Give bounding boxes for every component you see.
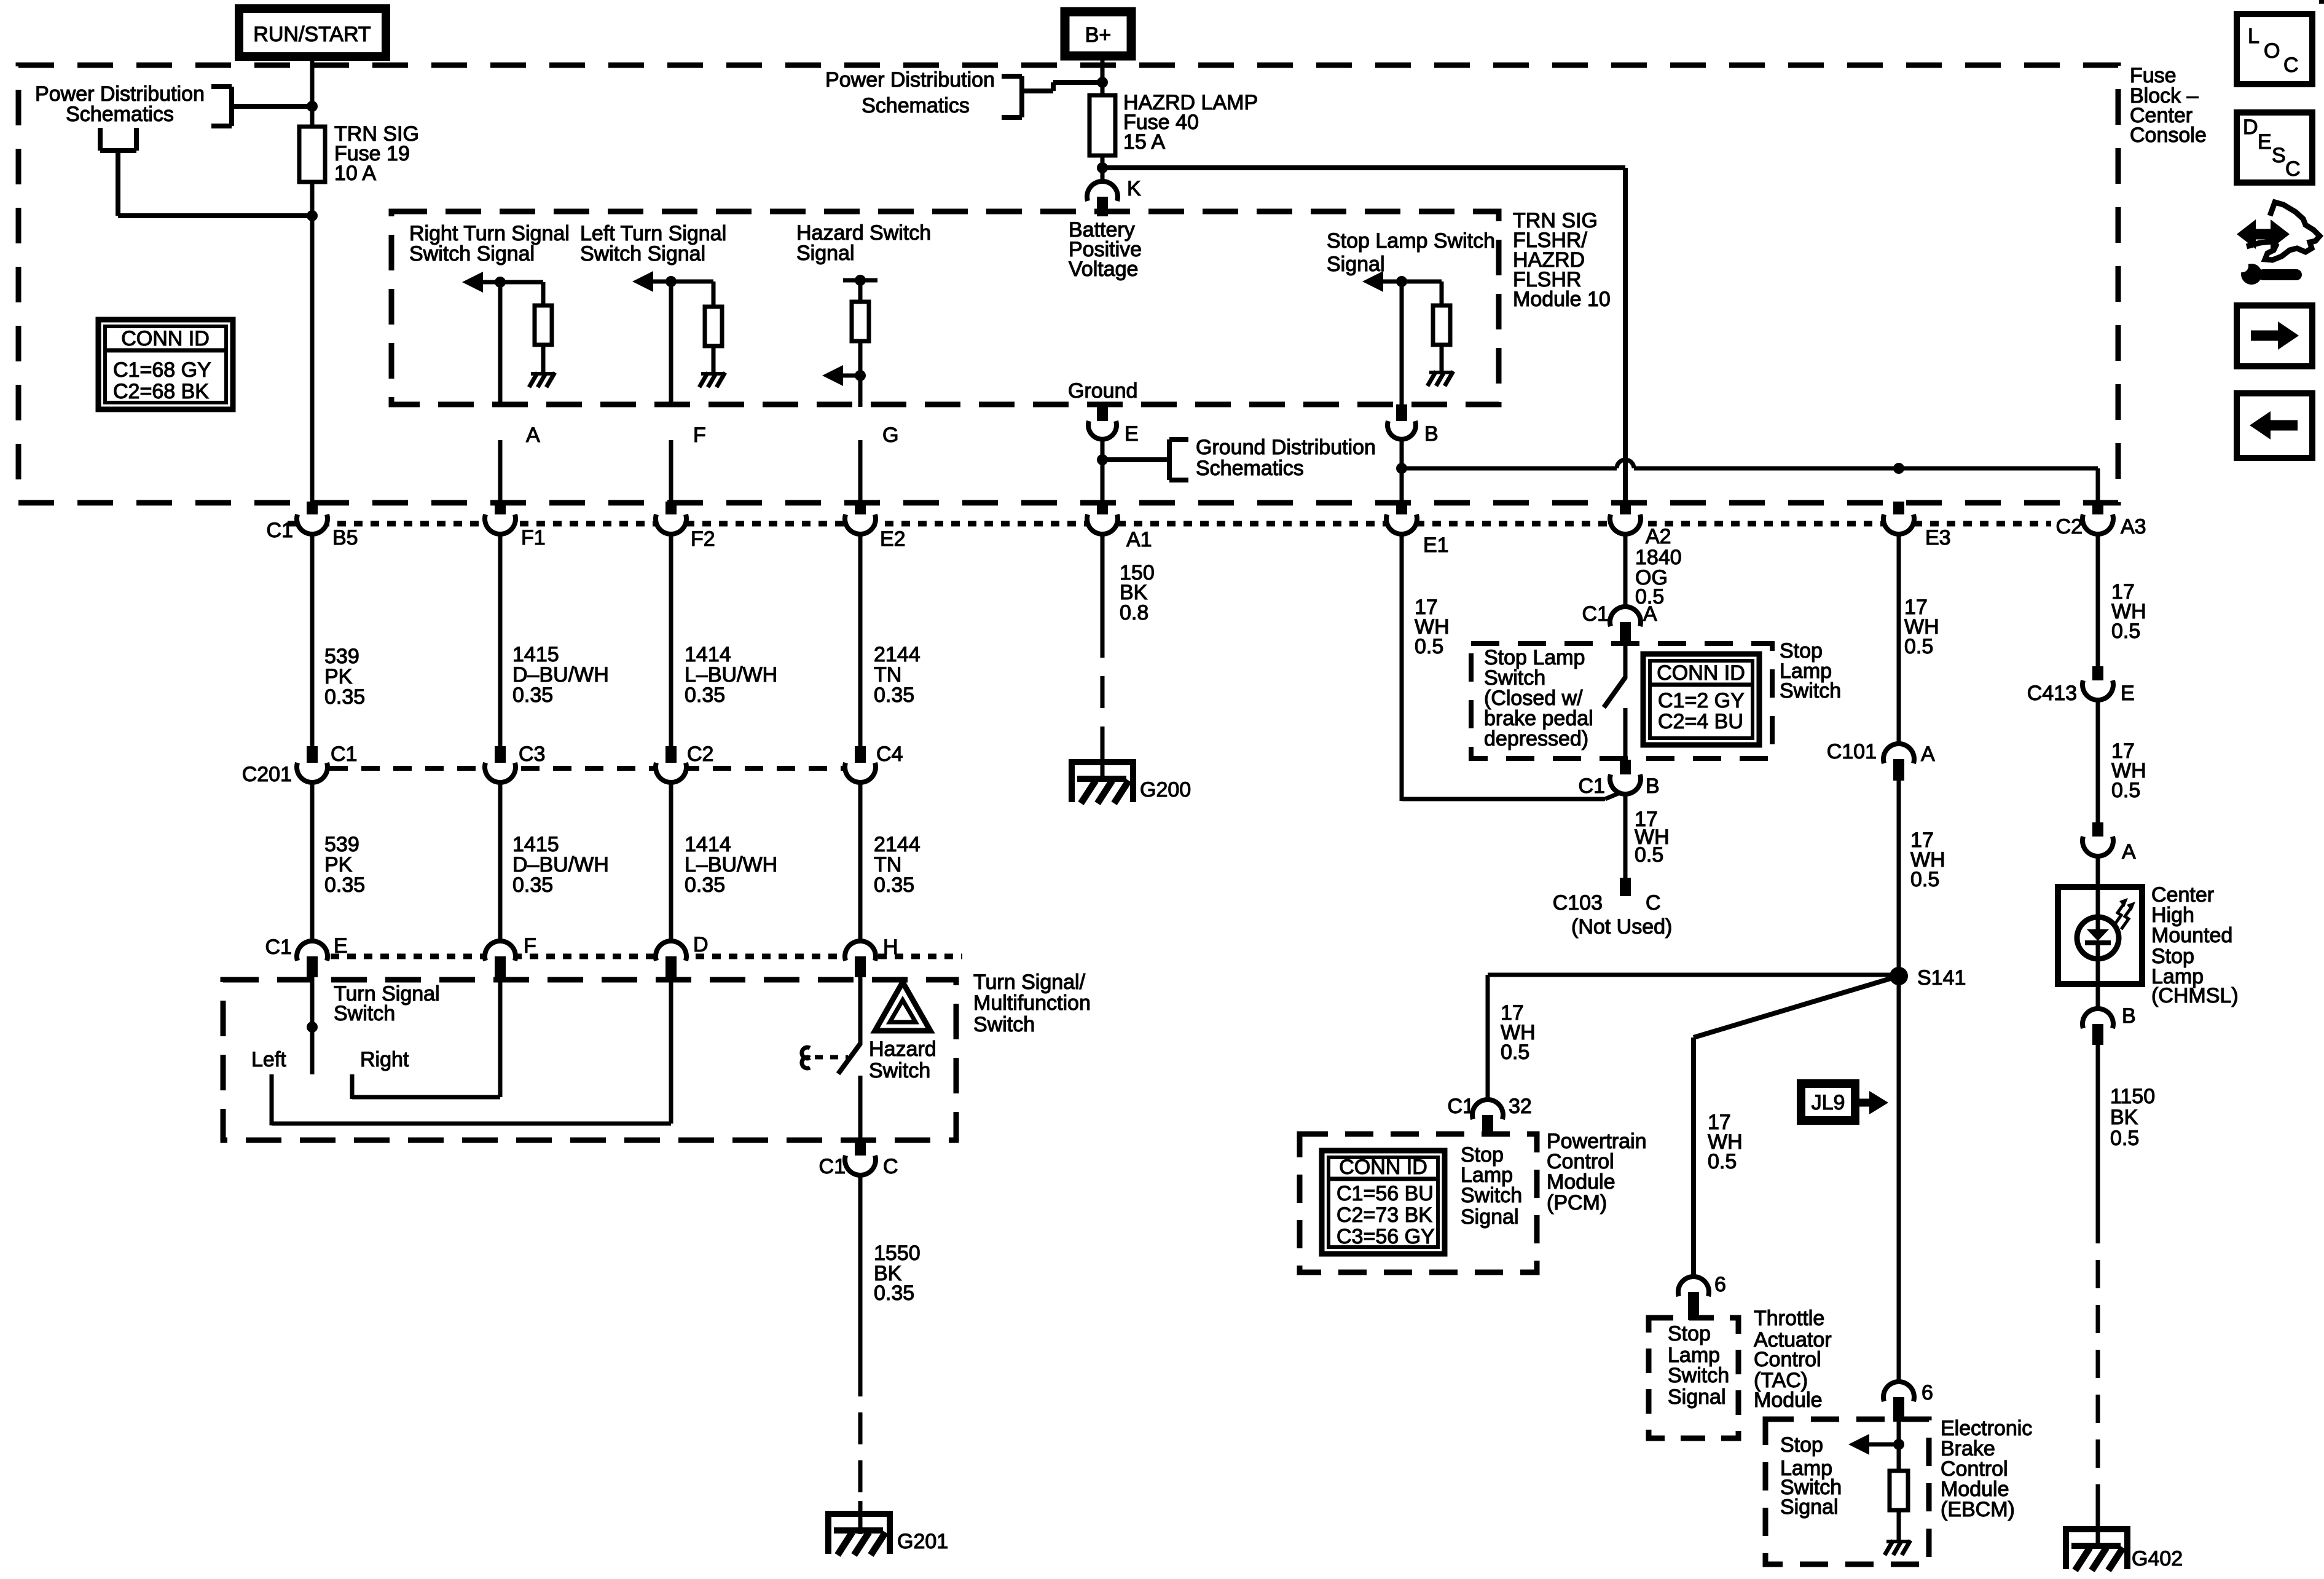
svg-text:0.5: 0.5 bbox=[2111, 620, 2140, 643]
label Turn Signal Switch (box) bbox=[334, 982, 440, 1025]
label Power Distribution Schematics (left) bbox=[35, 82, 205, 126]
svg-text:C: C bbox=[2285, 157, 2301, 181]
wire CHMSL to connector B bbox=[2096, 984, 2100, 1010]
TRN SIG FLSHR/HAZRD FLSHR Module 10 dashed box bbox=[391, 211, 1499, 404]
ground G200 bbox=[1069, 759, 1136, 765]
connector C1/C2 pin A1 arc bbox=[1087, 514, 1118, 534]
connector C1/C2 pin A2 stub bbox=[1620, 502, 1631, 520]
svg-text:0.5: 0.5 bbox=[1910, 868, 1939, 891]
svg-text:C2: C2 bbox=[687, 742, 713, 766]
svg-text:A: A bbox=[1643, 602, 1657, 626]
hazard switch signal T-bar bbox=[843, 278, 877, 283]
wire F1 to C201-C3 bbox=[498, 535, 503, 747]
page corner tick bbox=[2319, 0, 2324, 4]
svg-text:15 A: 15 A bbox=[1123, 130, 1165, 154]
svg-text:Multifunction: Multifunction bbox=[973, 991, 1091, 1015]
forward arrow icon box bbox=[2237, 305, 2312, 366]
LED cathode bar bbox=[2085, 940, 2111, 945]
svg-text:F: F bbox=[524, 934, 536, 958]
wire E2 to C201-C4 bbox=[858, 535, 863, 747]
fuse F40 HAZRD LAMP Fuse 40 15A bbox=[1089, 95, 1115, 156]
connector C1-A stub bbox=[1620, 622, 1631, 645]
svg-text:0.5: 0.5 bbox=[2111, 779, 2140, 802]
turn signal switch pole wire from pin E bbox=[310, 975, 315, 1074]
svg-text:Module: Module bbox=[1547, 1170, 1615, 1194]
connector C1/C2 pin F2 arc bbox=[656, 514, 686, 534]
wire labels 17 WH 0.5 (PCM branch) bbox=[1501, 1001, 1536, 1064]
wire diagonal branch S141 to TAC module bbox=[1694, 976, 1899, 1038]
stop lamp switch signal arrow (module) bbox=[1377, 280, 1402, 284]
label Power Distribution Schematics (B+) bbox=[825, 68, 995, 117]
wire A3 down (17 WH) bbox=[2096, 535, 2100, 666]
connector A stub (CHMSL) bbox=[2092, 822, 2103, 842]
svg-text:C3: C3 bbox=[519, 742, 545, 766]
label connector C1-C (hazard) bbox=[819, 1155, 898, 1178]
svg-text:0.35: 0.35 bbox=[324, 873, 365, 897]
svg-text:Switch: Switch bbox=[869, 1059, 930, 1082]
wire A2 down (1840 OG) bbox=[1623, 535, 1628, 608]
wire labels 1414 L-BU/WH 0.35 (lower) bbox=[685, 833, 777, 897]
svg-text:0.35: 0.35 bbox=[685, 873, 725, 897]
LOC icon box bbox=[2237, 14, 2312, 84]
svg-text:Stop: Stop bbox=[1668, 1322, 1711, 1345]
svg-text:E3: E3 bbox=[1925, 526, 1951, 549]
wire jog from E1 run to stop lamp switch pin B bbox=[1402, 791, 1624, 799]
wire EBCM pin 6 into module bbox=[1897, 1420, 1901, 1472]
connector A arc (CHMSL) bbox=[2083, 837, 2113, 856]
connector C201 pin C3 arc bbox=[485, 763, 516, 782]
wire E1 down (17 WH) bbox=[1400, 535, 1404, 801]
power distribution schematics bracket (B+) bbox=[1002, 76, 1102, 117]
label Stop Lamp Switch Signal (EBCM) bbox=[1780, 1433, 1842, 1519]
connector C1/C2 pin B5 arc bbox=[297, 514, 328, 534]
LED lamp circle bbox=[2077, 917, 2119, 959]
ground (module internal, stop lamp) bbox=[1429, 371, 1453, 374]
connector K arc bbox=[1087, 181, 1118, 201]
node fuse 40 output bbox=[1097, 162, 1108, 173]
wire C201-C3 to switch pin F bbox=[498, 779, 503, 943]
wire labels 17 WH 0.5 (switch B to C103) bbox=[1635, 808, 1670, 867]
wire switch pin D down to Left contact run bbox=[669, 975, 673, 1124]
wire labels 2144 TN 0.35 (upper) bbox=[874, 643, 921, 707]
connector C1-32 arc (PCM) bbox=[1472, 1100, 1503, 1119]
connector C1/C2 pin A2 arc bbox=[1610, 514, 1641, 534]
connector C1-A arc (stop lamp switch) bbox=[1610, 607, 1641, 626]
left turn signal switch signal arrow bbox=[647, 280, 671, 284]
label Powertrain Control Module (PCM) bbox=[1547, 1130, 1647, 1215]
label C413 E bbox=[2027, 682, 2135, 705]
wire B down (1150 BK) bbox=[2096, 1044, 2100, 1215]
svg-text:L: L bbox=[2248, 25, 2259, 48]
label Throttle Actuator Control (TAC) Module bbox=[1754, 1307, 1832, 1412]
label HAZRD LAMP Fuse 40 15 A bbox=[1123, 91, 1258, 154]
svg-text:G402: G402 bbox=[2132, 1547, 2183, 1570]
connector switch C1 pin D stub bbox=[665, 956, 677, 977]
connector C1/C2 pin A3 stub bbox=[2092, 502, 2103, 520]
wire branch S141 to PCM (horizontal) bbox=[1488, 973, 1899, 977]
svg-text:CONN ID: CONN ID bbox=[1657, 661, 1745, 685]
svg-text:0.35: 0.35 bbox=[874, 683, 914, 707]
svg-text:Signal: Signal bbox=[1327, 253, 1385, 276]
svg-text:Left: Left bbox=[251, 1048, 286, 1071]
svg-text:D: D bbox=[693, 933, 709, 956]
svg-text:Throttle: Throttle bbox=[1754, 1307, 1824, 1330]
stop lamp switch upper contact wire bbox=[1623, 644, 1628, 679]
hazard sense arrow bbox=[837, 374, 860, 378]
wire TAC branch vertical to pin 6 bbox=[1691, 1038, 1696, 1278]
wire B5 to C201-C1 bbox=[310, 535, 315, 747]
connector C1/C2 pin A1 stub bbox=[1097, 502, 1108, 520]
svg-text:K: K bbox=[1127, 177, 1141, 200]
label Hazard Switch Signal bbox=[796, 221, 931, 265]
wire stop lamp signal to module pin B bbox=[1400, 282, 1404, 407]
svg-text:E: E bbox=[2121, 682, 2135, 705]
wire hazard resistor to module pin G bbox=[858, 341, 863, 407]
wire module pin G to connector E2 bbox=[858, 440, 863, 504]
svg-text:G: G bbox=[882, 423, 898, 447]
wire rail corner down to A3 bbox=[2096, 468, 2100, 504]
svg-text:C1: C1 bbox=[819, 1155, 846, 1178]
connector C1-C arc (hazard) bbox=[845, 1156, 876, 1175]
node hazard sense bbox=[855, 370, 866, 381]
labels Left / Right contacts bbox=[251, 1048, 409, 1071]
resistor EBCM stop lamp input bbox=[1890, 1471, 1908, 1510]
connector C1-B arc bbox=[1610, 774, 1641, 794]
wire C101 down to splice S141 bbox=[1897, 779, 1901, 976]
turn signal / multifunction switch dashed box bbox=[223, 980, 956, 1140]
svg-text:0.35: 0.35 bbox=[512, 873, 553, 897]
svg-text:Turn Signal/: Turn Signal/ bbox=[973, 971, 1086, 994]
connector C201 pin C2 stub bbox=[665, 746, 677, 767]
connector B arc (CHMSL) bbox=[2083, 1009, 2113, 1028]
node below RUN/START bbox=[307, 101, 318, 112]
connector 6 stub (EBCM) bbox=[1893, 1397, 1904, 1422]
connector C1/C2 pin E3 arc bbox=[1883, 514, 1914, 534]
svg-text:A2: A2 bbox=[1646, 525, 1671, 548]
fuse block - center console dashed box bbox=[18, 65, 2118, 503]
wire labels 2144 TN 0.35 (lower) bbox=[874, 833, 921, 897]
wire E3 down (17 WH) bbox=[1897, 535, 1901, 746]
resistor stop lamp signal pull-up bbox=[1433, 305, 1450, 345]
connector switch C1 pin E stub bbox=[307, 956, 318, 977]
svg-text:C1=2 GY: C1=2 GY bbox=[1658, 689, 1745, 712]
connector switch C1 pin H stub bbox=[855, 956, 866, 977]
wire fuse 40 output to connector K bbox=[1101, 156, 1105, 183]
label Stop Lamp Switch (right of box) bbox=[1780, 639, 1841, 703]
label Stop Lamp Switch Signal (TAC) bbox=[1668, 1322, 1729, 1409]
svg-text:Power Distribution: Power Distribution bbox=[825, 68, 995, 92]
svg-text:Module: Module bbox=[1754, 1388, 1823, 1412]
node right turn signal bbox=[495, 277, 506, 288]
splice S141 bbox=[1890, 967, 1908, 985]
EBCM sense arrow bbox=[1863, 1443, 1899, 1447]
wire labels 539 PK 0.35 (lower) bbox=[324, 833, 365, 897]
svg-text:S: S bbox=[2272, 144, 2286, 167]
ground G201 bbox=[825, 1511, 893, 1517]
module pin B arc bbox=[1388, 421, 1416, 439]
wire labels 1840 OG 0.5 (A2) bbox=[1635, 546, 1682, 608]
svg-text:E2: E2 bbox=[880, 527, 906, 551]
stop lamp switch lower contact wire bbox=[1623, 708, 1628, 760]
connector C201 pin C3 stub bbox=[495, 746, 506, 767]
wire into CHMSL bbox=[2096, 856, 2100, 889]
wire dashed continuation to G201 bbox=[858, 1364, 863, 1501]
svg-text:Schematics: Schematics bbox=[1196, 457, 1304, 480]
LED wire inside bbox=[2096, 918, 2100, 931]
labels connector C201 row bbox=[242, 742, 903, 786]
label connector C1-B (stop lamp switch) bbox=[1579, 774, 1660, 798]
svg-text:Switch: Switch bbox=[1780, 679, 1841, 703]
connector 6 arc (EBCM) bbox=[1883, 1382, 1914, 1401]
connector C1/C2 pin E1 stub bbox=[1396, 502, 1407, 520]
svg-text:F1: F1 bbox=[521, 526, 546, 549]
svg-text:A3: A3 bbox=[2121, 515, 2146, 538]
wire RUN/START ignition feed down to Fuse 19 bbox=[310, 57, 315, 129]
connector C1-B stub bbox=[1620, 760, 1631, 780]
svg-text:Signal: Signal bbox=[1780, 1495, 1839, 1519]
wire labels 17 WH 0.5 (TAC branch) bbox=[1708, 1111, 1743, 1173]
wire labels 17 WH 0.5 (A3) bbox=[2111, 580, 2146, 643]
svg-text:E: E bbox=[1125, 422, 1139, 446]
svg-text:C1: C1 bbox=[1582, 602, 1609, 626]
hazard switch actuator symbol bbox=[802, 1047, 810, 1068]
svg-text:1150: 1150 bbox=[2110, 1085, 2155, 1108]
svg-text:0.5: 0.5 bbox=[1635, 843, 1663, 867]
svg-text:Mounted: Mounted bbox=[2151, 924, 2232, 947]
connector C1/C2 pin E1 arc bbox=[1386, 514, 1417, 534]
resistor left turn signal pull-up bbox=[705, 307, 722, 346]
svg-text:B+: B+ bbox=[1085, 23, 1112, 47]
svg-text:C1: C1 bbox=[1448, 1095, 1474, 1118]
connector C101-A stub bbox=[1893, 759, 1904, 781]
svg-text:Ground: Ground bbox=[1068, 379, 1137, 403]
svg-text:C413: C413 bbox=[2027, 682, 2077, 705]
label C101 bbox=[1827, 740, 1935, 766]
ground (module internal, right turn) bbox=[531, 372, 555, 376]
connector switch C1 pin F arc bbox=[485, 941, 516, 961]
wire pin B down through E1 bbox=[1400, 439, 1404, 504]
label Center High Mounted Stop Lamp (CHMSL) bbox=[2151, 883, 2239, 1007]
B+ power box bbox=[1065, 12, 1131, 56]
label C1 32 (PCM connector) bbox=[1448, 1095, 1532, 1118]
svg-text:(PCM): (PCM) bbox=[1547, 1191, 1607, 1215]
svg-text:0.35: 0.35 bbox=[324, 685, 365, 709]
svg-text:Switch: Switch bbox=[334, 1002, 395, 1025]
svg-text:(CHMSL): (CHMSL) bbox=[2151, 984, 2239, 1007]
svg-text:32: 32 bbox=[1509, 1095, 1532, 1118]
connector C1/C2 pin E3 stub bbox=[1893, 502, 1904, 520]
powertrain control module PCM dashed box bbox=[1300, 1134, 1537, 1272]
wire switch pin F down to Right contact bbox=[498, 975, 503, 1097]
wire fuse 19 output down to connector B5 bbox=[310, 182, 315, 504]
svg-text:0.5: 0.5 bbox=[1415, 635, 1443, 658]
label Stop Lamp Switch (Closed w/ brake pedal depressed) bbox=[1484, 646, 1593, 750]
electronic brake control module EBCM dashed box bbox=[1765, 1419, 1929, 1564]
hazard switch blade (open) bbox=[838, 1044, 860, 1074]
svg-text:Signal: Signal bbox=[1461, 1205, 1519, 1229]
module pin E stub bbox=[1097, 406, 1108, 427]
connector C1-32 stub bbox=[1482, 1115, 1493, 1136]
label TRN SIG Fuse 19 10 A bbox=[334, 122, 419, 185]
power distribution schematics bracket (left) bbox=[211, 87, 312, 126]
wire S141 down to EBCM pin 6 bbox=[1897, 976, 1901, 1384]
label Electronic Brake Control Module (EBCM) bbox=[1941, 1417, 2032, 1521]
wire right turn signal to module pin A bbox=[498, 282, 503, 407]
LED diode triangle bbox=[2087, 929, 2109, 941]
svg-text:C2=68 BK: C2=68 BK bbox=[113, 380, 209, 403]
svg-text:E1: E1 bbox=[1423, 534, 1449, 557]
svg-text:C2=4 BU: C2=4 BU bbox=[1658, 710, 1743, 733]
module pin B stub bbox=[1396, 404, 1407, 427]
node splice to lamp feed rail bbox=[1396, 463, 1407, 474]
hazard warning triangle symbol bbox=[875, 982, 930, 1031]
node stop lamp switch signal bbox=[1396, 276, 1407, 287]
label Ground Distribution Schematics bbox=[1196, 436, 1376, 480]
label Stop Lamp Switch Signal (PCM) bbox=[1461, 1143, 1522, 1229]
ground (EBCM internal) bbox=[1886, 1540, 1910, 1543]
svg-text:C2: C2 bbox=[2056, 515, 2083, 538]
CONN ID table (fuse block C1/C2) bbox=[98, 320, 233, 409]
labels switch connector row pins bbox=[265, 933, 898, 959]
svg-text:A: A bbox=[1921, 742, 1935, 766]
svg-text:B: B bbox=[1646, 774, 1660, 798]
svg-text:C1: C1 bbox=[331, 742, 357, 766]
node at fuse 19 output bbox=[307, 210, 318, 221]
svg-text:C1: C1 bbox=[1579, 774, 1605, 798]
svg-text:C101: C101 bbox=[1827, 740, 1877, 763]
wire labels 1415 D-BU/WH 0.35 (lower) bbox=[512, 833, 609, 897]
svg-text:C2=73 BK: C2=73 BK bbox=[1337, 1203, 1432, 1227]
connector C413-E arc bbox=[2083, 680, 2113, 700]
wire connector C down (1550 BK) bbox=[858, 1173, 863, 1364]
connector C1/C2 pin E2 arc bbox=[845, 514, 876, 534]
wire labels 1550 BK 0.35 bbox=[874, 1242, 921, 1305]
wire left turn signal to module pin F bbox=[669, 282, 673, 407]
svg-text:Schematics: Schematics bbox=[862, 94, 970, 117]
connector row C201 (dashed) bbox=[297, 766, 875, 771]
ground G402 bbox=[2063, 1526, 2130, 1532]
connector C1/C2 pin E2 stub bbox=[855, 502, 866, 520]
svg-text:C103: C103 bbox=[1553, 891, 1603, 915]
svg-text:H: H bbox=[883, 935, 898, 959]
connector switch C1 pin E arc bbox=[297, 941, 328, 961]
svg-text:Switch Signal: Switch Signal bbox=[580, 242, 705, 266]
svg-text:Ground Distribution: Ground Distribution bbox=[1196, 436, 1376, 459]
svg-text:6: 6 bbox=[1714, 1273, 1726, 1296]
svg-text:CONN ID: CONN ID bbox=[121, 327, 210, 350]
node EBCM sense bbox=[1893, 1439, 1904, 1450]
LED light emission arrows bbox=[2114, 898, 2135, 929]
wire labels 17 WH 0.5 (C413 to CHMSL) bbox=[2111, 739, 2146, 802]
svg-text:0.5: 0.5 bbox=[1708, 1150, 1737, 1173]
label Left Turn Signal Switch Signal bbox=[580, 222, 726, 266]
wire fuse 40 output to A2 branch (horizontal) bbox=[1102, 165, 1625, 170]
connector C1/C2 pin F2 stub bbox=[665, 502, 677, 520]
svg-text:G201: G201 bbox=[897, 1530, 948, 1553]
svg-text:F2: F2 bbox=[691, 527, 715, 551]
svg-text:0.35: 0.35 bbox=[512, 683, 553, 707]
switch pole node bbox=[307, 1022, 318, 1033]
svg-text:Signal: Signal bbox=[1668, 1385, 1726, 1409]
connector C103-C stub (not used) bbox=[1620, 878, 1631, 896]
svg-text:0.8: 0.8 bbox=[1120, 601, 1148, 624]
svg-text:Stop Lamp Switch: Stop Lamp Switch bbox=[1327, 229, 1495, 253]
wire labels 17 WH 0.5 (E1) bbox=[1415, 596, 1450, 658]
label connector C1-A (stop lamp switch) bbox=[1582, 602, 1657, 626]
wire labels 1415 D-BU/WH 0.35 (upper) bbox=[512, 643, 609, 707]
svg-text:C1: C1 bbox=[267, 519, 293, 542]
wire labels 17 WH 0.5 (C101 to S141) bbox=[1910, 829, 1945, 891]
connector K pin stub bbox=[1097, 197, 1108, 216]
wire resistor to ground (right turn) bbox=[541, 345, 546, 372]
svg-text:B: B bbox=[1424, 422, 1439, 446]
svg-text:Hazard: Hazard bbox=[869, 1038, 936, 1061]
wire labels 1150 BK 0.5 bbox=[2110, 1085, 2155, 1150]
svg-text:C1=56 BU: C1=56 BU bbox=[1337, 1182, 1434, 1205]
label Battery Positive Voltage bbox=[1069, 218, 1142, 281]
wire C201-C2 to switch pin D bbox=[669, 779, 673, 943]
wire C413 down (17 WH) bbox=[2096, 699, 2100, 822]
turn signal switch Right contact wire to pin F bbox=[352, 1074, 500, 1099]
resistor right turn signal pull-up bbox=[535, 305, 552, 345]
svg-text:Console: Console bbox=[2130, 124, 2207, 147]
label Right Turn Signal Switch Signal bbox=[409, 222, 570, 266]
svg-text:G200: G200 bbox=[1140, 778, 1191, 801]
labels module pins A F G E B bbox=[526, 422, 1439, 447]
svg-text:Right: Right bbox=[360, 1048, 409, 1071]
connector C1/C2 pin F1 arc bbox=[485, 514, 516, 534]
connector C201 pin C4 arc bbox=[845, 763, 876, 782]
stop lamp switch dashed box bbox=[1471, 644, 1772, 758]
CHMSL internal wire bbox=[2096, 887, 2100, 984]
connector C1-C stub (hazard) bbox=[855, 1140, 866, 1160]
wire module pin F to connector F2 bbox=[669, 440, 673, 504]
svg-text:E: E bbox=[2258, 130, 2272, 154]
svg-text:0.5: 0.5 bbox=[2110, 1127, 2139, 1150]
svg-text:A1: A1 bbox=[1126, 528, 1152, 551]
connector C201 pin C2 arc bbox=[656, 763, 686, 782]
svg-text:C201: C201 bbox=[242, 763, 292, 786]
svg-text:BK: BK bbox=[2110, 1106, 2138, 1129]
svg-text:(Not Used): (Not Used) bbox=[1571, 915, 1672, 939]
svg-text:Switch: Switch bbox=[973, 1013, 1035, 1036]
bracket under Power Distribution text with feed wire to fuse output node bbox=[100, 128, 312, 216]
svg-text:F: F bbox=[693, 423, 706, 447]
wire labels 1414 L-BU/WH 0.35 (upper) bbox=[685, 643, 777, 707]
connector C1/C2 pin A3 arc bbox=[2083, 514, 2113, 534]
wire dashed continuation to G402 bbox=[2096, 1215, 2100, 1511]
node left turn signal bbox=[665, 276, 677, 287]
turn signal switch connector row C1 (dotted) bbox=[297, 954, 962, 959]
service info icon (arrows / outline / wrench) bbox=[2236, 202, 2320, 285]
ground (module internal, left turn) bbox=[701, 372, 725, 376]
svg-text:JL9: JL9 bbox=[1812, 1091, 1845, 1114]
svg-text:C1: C1 bbox=[265, 935, 292, 959]
ground distribution schematics bracket bbox=[1102, 439, 1188, 480]
back arrow icon box bbox=[2237, 393, 2312, 458]
stop lamp switch blade (closed w/ brake pedal depressed) bbox=[1604, 677, 1625, 707]
wire labels 150 BK 0.8 bbox=[1120, 561, 1155, 624]
wire pin E to connector A1 bbox=[1101, 439, 1105, 504]
fuse F19 TRN SIG Fuse 19 10A bbox=[299, 127, 325, 182]
wire module pin A to connector F1 bbox=[498, 440, 503, 504]
hazard switch mechanical link (dashed) bbox=[815, 1055, 848, 1060]
svg-text:6: 6 bbox=[1922, 1381, 1933, 1404]
wire A2 branch vertical drop bbox=[1623, 168, 1628, 504]
connector 6 arc (TAC) bbox=[1678, 1277, 1709, 1296]
connector C201 pin C1 stub bbox=[307, 746, 318, 767]
labels connector row C1/C2 pins bbox=[267, 515, 2146, 557]
